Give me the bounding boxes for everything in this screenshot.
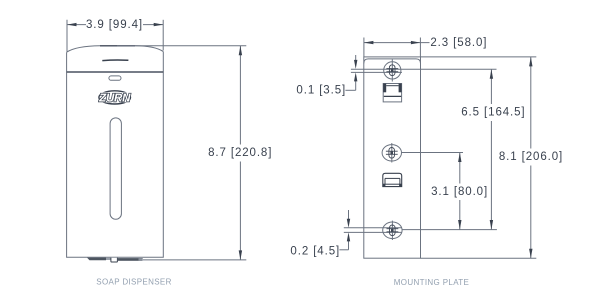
nozzle bar left [87, 258, 106, 261]
bottom screw vertical centerline [391, 221, 393, 240]
3.9 dim left extension line [66, 20, 68, 52]
top screw vertical centerline [391, 59, 393, 81]
8.7 dim line bottom segment [239, 162, 241, 260]
sight slot window [110, 118, 121, 219]
cap seam line [67, 71, 164, 73]
middle screw vertical centerline [391, 143, 393, 163]
6.5 dim arrow up [490, 69, 493, 79]
middle screw centerline to 3.1 dim [402, 152, 464, 154]
8.7 dim line top segment [239, 46, 241, 145]
8.1 dim line bottom segment [530, 166, 532, 259]
3.9 dim right extension line [162, 20, 164, 51]
svg-text:MOUNTING PLATE: MOUNTING PLATE [394, 278, 469, 287]
svg-text:ZURN: ZURN [98, 93, 131, 105]
3.9 dim line right segment [143, 24, 163, 26]
0.1 dim leader [345, 89, 355, 91]
svg-text:0.1 [3.5]: 0.1 [3.5] [296, 84, 346, 96]
0.2 dim leader [339, 249, 348, 251]
top bracket cutout [383, 84, 401, 102]
bottom screw centerline pair [344, 227, 402, 229]
3.9 dim arrow right [154, 23, 164, 26]
0.1 dim up arrow [355, 81, 357, 90]
plate inner rounded top [364, 59, 421, 64]
2.3 dim left extension [363, 38, 365, 57]
2.3 dim arrow right [411, 41, 421, 44]
8.1 dim arrow up [529, 57, 532, 67]
top screw circle [384, 62, 401, 79]
middle screw phillips cross [386, 148, 398, 159]
3.1 dim arrow up [458, 153, 461, 163]
3.9 dim arrow left [67, 23, 77, 26]
3.1 dim line top segment [459, 153, 461, 184]
svg-text:8.1 [206.0]: 8.1 [206.0] [499, 151, 563, 163]
6.5 dim arrow down [490, 220, 493, 230]
2.3 dim arrow left [364, 41, 374, 44]
8.7 dim arrow up [239, 46, 242, 56]
2.3 dim right extension [419, 38, 421, 57]
0.2 dim up arrow [348, 241, 350, 250]
svg-text:3.9 [99.4]: 3.9 [99.4] [86, 19, 143, 31]
middle bracket cutout [383, 173, 402, 186]
top screw centerline upper extending to 6.5 dim [351, 68, 497, 70]
svg-text:2.3 [58.0]: 2.3 [58.0] [430, 37, 487, 49]
3.9 dim line left segment [67, 24, 86, 26]
cap inner short line [102, 59, 128, 62]
8.1 dim arrow down [529, 249, 532, 259]
bottom edge extension to 8.1 [421, 257, 537, 259]
bottom screw circle [383, 222, 402, 239]
nozzle bar right [118, 258, 143, 261]
top screw centerline lower [351, 71, 402, 73]
plate outer outline [364, 57, 421, 258]
dispenser dome top [67, 46, 164, 52]
bottom screw centerline to dims [402, 229, 497, 231]
svg-text:3.1 [80.0]: 3.1 [80.0] [431, 186, 488, 198]
nozzle notch [111, 258, 118, 262]
svg-text:SOAP DISPENSER: SOAP DISPENSER [96, 277, 171, 286]
svg-text:0.2 [4.5]: 0.2 [4.5] [290, 245, 340, 257]
bottom screw phillips cross [387, 225, 399, 236]
6.5 dim line top segment [490, 69, 492, 104]
top screw phillips cross [386, 65, 398, 76]
dispenser body outline [67, 52, 164, 258]
3.1 dim arrow down [458, 220, 461, 230]
2.3 dim line [364, 42, 430, 44]
ZURN logo [98, 91, 131, 105]
6.5 dim line bottom segment [490, 121, 492, 230]
nozzle bar mid light [106, 258, 111, 260]
middle screw circle [382, 145, 401, 161]
8.7 dim top extension line [117, 45, 246, 47]
svg-text:8.7 [220.8]: 8.7 [220.8] [208, 147, 272, 159]
3.1 dim line bottom segment [459, 200, 461, 230]
8.7 dim arrow down [239, 250, 242, 260]
top edge extension to 8.1 [421, 56, 537, 58]
svg-text:6.5 [164.5]: 6.5 [164.5] [461, 107, 525, 119]
8.1 dim line top segment [530, 57, 532, 149]
0.2 dim down arrow [348, 210, 350, 221]
8.7 dim bottom extension line [143, 259, 246, 261]
0.1 dim down arrow [355, 55, 357, 62]
indicator window [109, 76, 121, 80]
dome apex flat line [100, 45, 135, 47]
